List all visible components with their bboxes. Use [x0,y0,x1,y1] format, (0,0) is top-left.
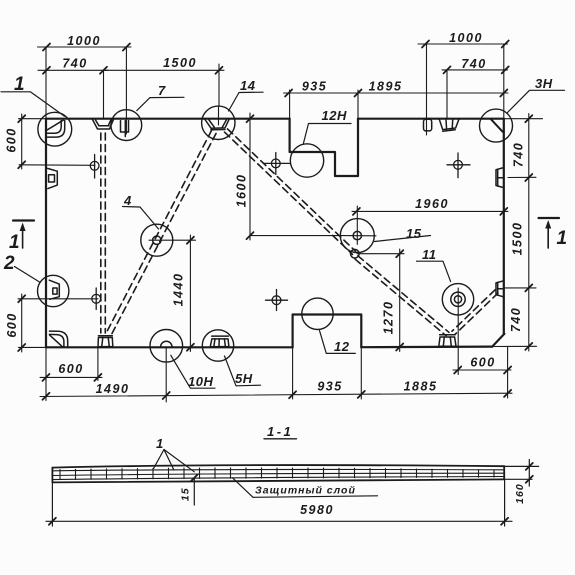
tick 600BL right [94,374,101,381]
ext 5980 left [51,483,53,526]
section strip bottom line [52,479,504,482]
tick right chain y177.5 [525,174,532,181]
wire: left edge extension down [45,347,47,400]
lift hole 10H semicircle [161,341,172,347]
wire: ext vertical bottom notch left [292,347,294,399]
svg-text:1-1: 1-1 [267,424,293,439]
svg-text:14: 14 [240,78,256,93]
callout circle 2 [38,275,69,306]
leader item 7 [137,97,184,110]
tick 600BL left [43,374,50,381]
dimension 1270 [399,249,401,352]
tick 935 left [285,90,292,97]
tick 1600 bottom [247,232,254,239]
embed 14 trapezoid [205,120,229,129]
wire: bottom edge extension right [492,345,536,347]
svg-text:1: 1 [557,228,568,249]
dimension 1440 [189,235,191,352]
wire: ext vertical x103.5 (embed) [103,70,105,119]
wire: ext vertical top notch right [357,90,359,119]
dimension 1895 top [358,92,508,94]
target x94.6 y165.8 [90,161,99,170]
lift point 11 rings [451,292,465,306]
svg-text:Защитный слой: Защитный слой [255,485,356,497]
callout circle 10H [150,330,183,363]
svg-text:5Н: 5Н [235,371,253,386]
callout circle 11 [442,284,473,315]
target x275.8 y163.4 [271,159,280,168]
tick chain x361.3 [358,391,365,398]
dimension bottom chain 1490/935/1885 [40,393,512,396]
wire: top edge extension right [504,118,543,120]
dim 15 line [193,478,195,505]
section arrowhead right [545,220,551,229]
wire: top edge left part [46,118,290,120]
callout circle 12 [302,298,333,329]
svg-text:3Н: 3Н [535,76,553,91]
dimension tick slashes [18,41,532,400]
callout circle 15 [340,219,374,253]
dimension 1500 top [104,69,225,71]
tick right chain y287.9 [525,284,532,291]
corner detail bottom-left [50,331,68,347]
sling diagonal kink-to-bottom b [358,256,449,332]
section strip division ticks [60,468,494,480]
svg-text:1: 1 [156,436,164,451]
wire: ext horizontal 1600 bottom to item 15 [250,235,342,237]
dimension 600 bottom-right [453,369,511,371]
leader item 11 [417,261,451,281]
svg-text:7: 7 [158,83,166,98]
tick right chain y346.4 [525,343,532,350]
tick 1960 left [353,208,360,215]
tick 1000R right [502,41,509,48]
section mark right bar [539,217,560,219]
item 4 circle [153,236,161,244]
dimension 1960 [352,210,508,212]
underline protective layer [253,496,378,498]
target x458 y164.8 [454,160,463,169]
embed right edge y289 [496,281,504,297]
dimension 740 top-right [442,69,508,71]
sling diagonal 14-to-left a [108,131,212,331]
leader item 3H [507,90,565,113]
wire: ext vertical bottom notch right [360,347,362,399]
tick 935 right [355,90,362,97]
wire: ext vertical x219 (item 14) [218,64,220,106]
tick chain x507.6 [504,390,511,397]
leader item 12 [320,331,356,354]
tick 5980 right [501,518,508,525]
tick 600LB top [18,295,25,302]
svg-text:1: 1 [14,74,25,95]
leader item 12H [303,124,351,145]
svg-text:740: 740 [509,307,523,332]
section mark left arrow [22,228,24,248]
wire: ext horizontal right chain y177.5 [508,176,536,178]
dimension 1000 top-right [418,43,508,45]
wire: ext horizontal y298.8 to target [18,298,98,300]
target x96.2 y298.8 [92,294,101,303]
tick 160 bottom [526,476,533,483]
wire: ext vertical through item 11 [457,288,459,375]
embed top-right trapezoid x449 [439,119,459,129]
sling diagonal 14-to-left b [112,134,216,334]
wire: bottom edge extension left [19,346,47,348]
callout circle 12H [290,144,323,177]
section strip inner line 2 [52,473,504,475]
wire: ext horizontal through item 15 [342,235,377,237]
sling kink circle [351,249,360,258]
dimension chain right (740/1500/740) [528,114,530,352]
tick 600LB bottom [18,344,25,351]
wire: bottom edge left part [46,346,293,348]
svg-text:935: 935 [317,380,342,394]
wire: top notch outline [290,119,358,176]
wire: ext vertical x166 through 10H [165,347,167,402]
svg-text:2: 2 [3,253,15,274]
dimension 1000 top-left [38,46,132,48]
callout circle 7 [111,110,142,141]
wire: ext vertical x126 (item 7) [125,47,127,134]
wire: bottom notch outline [293,315,362,348]
section strip inner line 1 [52,469,504,470]
lift point 15 circle [353,231,361,239]
dimension 740 top-left [38,69,108,71]
svg-text:740: 740 [461,57,486,71]
dimension 600 left bottom [21,294,23,352]
svg-text:935: 935 [302,80,327,94]
section strip left end [51,468,53,483]
wire: ext vertical x426.5 (embed) [426,44,428,135]
corner detail top-right (item 3H) [491,119,503,132]
callout circle 4 [141,224,173,256]
sling vertical pair left a [100,133,102,333]
wire: top edge extension left [19,118,47,120]
tick 15 [191,474,198,481]
svg-text:1600: 1600 [235,174,249,208]
leader item 14 [229,92,264,111]
svg-text:600: 600 [5,312,19,337]
dim 160 line [528,460,530,487]
embed in circle 5H [212,335,229,337]
callout circle 5H [202,330,233,361]
leader item 15 [375,236,431,242]
callout circle 3H [480,109,513,142]
callout circle 14 [202,106,235,139]
leader item 2 [15,267,40,282]
sling diagonal 14-to-kink b [228,129,356,251]
section strip right end [503,466,505,479]
svg-text:1270: 1270 [382,301,396,335]
wire: ext vertical through item 15 [356,206,358,245]
tick 1000L left [43,44,50,51]
svg-text:11: 11 [422,247,437,262]
dimension 600 left top [21,114,23,169]
target x276.5 y300.2 [272,296,281,305]
dimension 935 top [284,92,363,94]
tick 1960 right [500,208,507,215]
tick 600LT top [18,115,25,122]
embed right edge y177 [496,168,504,188]
tick 740L left [43,67,50,74]
sling vertical pair left b [104,133,106,333]
embed top-right small x427 [424,119,432,131]
svg-text:600: 600 [58,362,83,376]
wire: ext horizontal right chain y287.9 [504,287,536,289]
leader item 1 [1,92,65,116]
wire: ext horizontal from circle 4 [149,239,196,241]
svg-text:600: 600 [470,356,495,370]
tick chain x46 [43,393,50,400]
svg-text:15: 15 [406,226,422,241]
tick 600LT bottom [18,161,25,168]
svg-text:160: 160 [514,483,526,504]
wire: ext vertical top notch left [289,90,291,119]
tick right chain y118.7 [525,115,532,122]
svg-text:12: 12 [334,339,350,354]
callout circle 1 (top-left corner) [38,112,72,146]
tick 740R left [444,66,451,73]
wire: left edge of panel [45,119,47,347]
tick 1270 top [396,250,403,257]
section mark right arrow [547,226,549,248]
section strip top line [52,465,504,468]
leader item 10H [171,355,215,388]
tick 1440 bottom [187,344,194,351]
svg-text:1960: 1960 [415,197,449,211]
svg-text:15: 15 [180,487,192,501]
embed bottom x447 [440,334,455,336]
sling diagonal kink-to-bottom a [355,259,446,336]
leader item 5H [225,356,261,386]
svg-text:740: 740 [62,57,87,71]
svg-text:10Н: 10Н [188,374,213,389]
svg-text:1895: 1895 [369,80,403,94]
tick 1440 top [187,237,194,244]
dimension 1600 [249,113,251,240]
sling diagonal 14-to-kink a [225,132,353,254]
tick 600BR left [454,367,461,374]
tick 1895 right [500,90,507,97]
wire: left edge extension up [45,47,47,119]
svg-text:1885: 1885 [404,380,438,394]
embed top trapezoid x103 [93,120,114,130]
leader protective layer [233,478,254,498]
tick 1000R left [422,41,429,48]
wire: ext horizontal 1270 top from kink [357,253,404,255]
svg-text:12Н: 12Н [322,108,347,123]
tick 1500 right [216,67,223,74]
tick chain x292.6 [289,391,296,398]
svg-text:1500: 1500 [163,56,197,70]
embed in circle 2 [49,280,59,299]
tick 1000L right [123,44,130,51]
tick 600BR right [504,367,511,374]
svg-text:600: 600 [5,127,19,152]
ext 160 top [504,465,538,467]
embed in circle 7 [121,121,129,133]
ext 160 bottom [504,478,532,480]
tick 740L right [100,67,107,74]
tick 160 top [526,463,533,470]
svg-text:1: 1 [9,232,20,253]
svg-text:4: 4 [123,193,132,208]
sling diagonal right a [452,290,495,331]
section mark left bar [13,219,34,221]
leader item 4 [123,207,159,230]
wire: ext vertical x507.6 bottom right [507,347,509,398]
wire: ext vertical x447 (embed) [446,70,448,119]
dim 5980 line [46,520,512,522]
tick 740R right [502,66,509,73]
embed bottom x105 [98,335,112,337]
svg-text:5980: 5980 [300,503,334,517]
svg-text:1490: 1490 [96,382,130,396]
wire: right edge of panel [503,119,505,334]
corner detail top-left (item 1) [48,121,65,138]
embed left edge y177 [48,168,58,188]
wire: ext vertical x97.9 bottom left [97,347,99,380]
section strip inner line 3 [52,477,504,480]
wire: bottom edge right part [361,346,492,349]
svg-text:1000: 1000 [67,34,101,48]
wire: bottom-right corner chamfer [492,334,504,347]
svg-text:1500: 1500 [511,222,525,256]
ext 5980 right [504,479,506,526]
svg-text:1440: 1440 [172,273,186,307]
tick 1600 top [247,115,254,122]
wire: ext horizontal y164.8 to target [19,164,95,167]
svg-text:740: 740 [512,142,526,167]
tick 5980 left [49,518,56,525]
wire: right edge extension up [503,44,505,119]
tick 1270 bottom [396,344,403,351]
tick chain x166 [163,392,170,399]
dimension 600 bottom-left [40,376,102,378]
section arrowhead left [20,223,26,232]
sling diagonal right b [455,293,498,334]
wire: top edge right part [358,118,504,120]
leader item 1 section [154,450,164,469]
svg-text:1000: 1000 [449,31,483,45]
